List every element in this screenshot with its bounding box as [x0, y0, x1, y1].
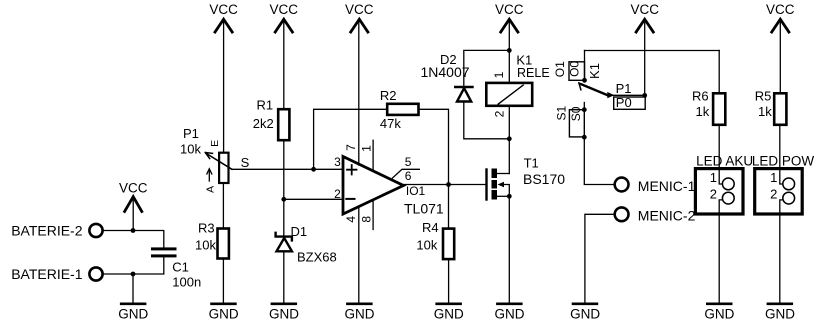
resistor R5	[755, 89, 787, 125]
junction output node	[446, 182, 451, 187]
resistor R3	[195, 221, 229, 259]
wire BATERIE-1 to C1 bottom	[103, 257, 164, 274]
svg-text:S0: S0	[569, 106, 583, 121]
terminal MENIC-1	[615, 178, 696, 194]
relay contact K1	[553, 61, 614, 99]
junction drain node	[507, 136, 512, 141]
svg-text:GND: GND	[209, 307, 239, 322]
wire S to MENIC-1	[584, 137, 614, 184]
connector LED AKU	[695, 154, 753, 215]
junction GND battery node	[131, 272, 136, 277]
power VCC relay column	[495, 2, 524, 32]
svg-text:R1: R1	[257, 98, 274, 113]
svg-text:P0: P0	[616, 95, 632, 110]
svg-text:VCC: VCC	[270, 2, 299, 17]
wire op-amp output to T1 gate	[404, 184, 486, 186]
wire VCC to op-amp pin 7	[358, 20, 360, 165]
junction P/VCC	[642, 93, 647, 98]
wire node to op-amp pin 2	[284, 198, 343, 200]
svg-text:1k: 1k	[696, 104, 710, 119]
terminal BATERIE-1	[11, 266, 102, 282]
ground GND battery	[118, 304, 148, 322]
svg-text:LED AKU: LED AKU	[696, 154, 753, 169]
wire drain node to T1 drain	[508, 139, 510, 174]
wire R2 left leg	[314, 109, 388, 169]
wire LED POW pin 2 to GND	[780, 200, 783, 302]
svg-text:A: A	[204, 186, 216, 193]
ground GND LED AKU	[704, 304, 734, 322]
svg-text:3: 3	[334, 155, 341, 169]
power VCC R5 column	[766, 2, 795, 32]
ground GND LED POW	[765, 304, 795, 322]
wire VCC to relay pin 1	[508, 20, 510, 83]
wire VCC to P1	[223, 20, 225, 153]
wire battery node to GND	[132, 274, 134, 302]
wire BATERIE-2 to C1 top	[103, 231, 164, 248]
relay coil K1	[486, 52, 549, 117]
resistor R4	[416, 220, 454, 259]
resistor R1	[253, 98, 290, 141]
wire P1 to R3	[222, 183, 224, 229]
svg-text:4: 4	[344, 216, 358, 223]
wire D1 to GND	[283, 251, 285, 302]
svg-text:GND: GND	[570, 307, 600, 322]
wire T1 source to GND	[508, 196, 510, 302]
svg-text:2: 2	[334, 187, 341, 201]
svg-text:GND: GND	[765, 307, 795, 322]
wire output node to R4	[448, 185, 450, 229]
svg-text:47k: 47k	[380, 116, 401, 131]
wire R2 right leg to output node	[419, 109, 449, 184]
svg-text:100n: 100n	[172, 275, 201, 290]
svg-text:R2: R2	[380, 88, 397, 103]
wire R6 top leg	[718, 51, 720, 94]
junction VCC/D2 node	[507, 48, 512, 53]
wire op-amp pin 4 to GND	[358, 206, 360, 302]
power VCC battery	[119, 181, 148, 231]
svg-text:1: 1	[359, 145, 373, 152]
svg-text:S1: S1	[554, 106, 568, 121]
connector LED POW	[752, 154, 815, 215]
svg-text:BZX68: BZX68	[297, 250, 337, 265]
svg-text:MENIC-1: MENIC-1	[638, 178, 696, 194]
op-amp minus input mark	[346, 198, 354, 200]
svg-text:GND: GND	[269, 307, 299, 322]
wire D2 top branch	[464, 50, 510, 87]
ground GND T1	[495, 304, 525, 322]
svg-text:2k2: 2k2	[253, 116, 274, 131]
svg-text:BS170: BS170	[523, 171, 565, 187]
terminal MENIC-2	[615, 207, 696, 223]
junction O terminal	[582, 78, 587, 83]
power VCC op-amp column	[345, 2, 374, 32]
svg-text:VCC: VCC	[345, 2, 374, 17]
op-amp IO1	[334, 144, 444, 223]
svg-text:VCC: VCC	[119, 181, 148, 196]
svg-text:GND: GND	[345, 307, 375, 322]
svg-text:VCC: VCC	[630, 2, 659, 17]
svg-text:GND: GND	[704, 307, 734, 322]
op-amp pin 1 stub	[372, 140, 374, 171]
svg-text:8: 8	[359, 216, 373, 223]
junction R2 left to pin3	[311, 167, 316, 172]
junction VCC battery node	[131, 228, 136, 233]
svg-text:VCC: VCC	[766, 2, 795, 17]
svg-text:O1: O1	[553, 61, 567, 77]
wire LED AKU pin 2 to GND	[719, 200, 722, 302]
svg-text:2: 2	[492, 110, 506, 117]
wire P common to VCC	[607, 94, 645, 96]
transistor T1	[487, 155, 566, 199]
svg-text:D1: D1	[291, 224, 308, 239]
svg-text:1N4007: 1N4007	[421, 64, 470, 80]
svg-text:R6: R6	[692, 89, 709, 104]
svg-text:10k: 10k	[195, 238, 216, 253]
wire P1 wiper S to op-amp pin 3	[232, 168, 343, 170]
terminal box P0	[614, 95, 646, 110]
wire R5 to LED POW pin 1	[780, 125, 783, 184]
svg-text:R4: R4	[422, 220, 439, 235]
svg-text:1: 1	[710, 170, 717, 185]
op-amp pin 8 stub	[372, 200, 374, 230]
svg-text:P1: P1	[183, 126, 199, 141]
svg-text:RELE: RELE	[517, 66, 550, 80]
svg-text:P1: P1	[616, 81, 632, 96]
svg-text:VCC: VCC	[495, 2, 524, 17]
wire relay contact O to R6 (top rail)	[585, 50, 720, 52]
wire relay pin 2 to drain node	[508, 106, 510, 139]
svg-text:10k: 10k	[416, 238, 437, 253]
wire VCC to R1	[283, 20, 285, 110]
wire VCC to R5	[779, 20, 781, 94]
svg-text:LED POW: LED POW	[752, 154, 815, 169]
op-amp pin 5 stub	[393, 169, 420, 178]
svg-text:TL071: TL071	[404, 201, 444, 217]
power VCC contact column	[630, 2, 659, 32]
wire R6 to LED AKU pin 1	[719, 125, 722, 184]
svg-text:1: 1	[492, 71, 506, 78]
wire MENIC-2 to GND	[585, 214, 615, 302]
svg-text:R3: R3	[198, 221, 215, 236]
svg-text:IO1: IO1	[406, 184, 426, 198]
P1 direction arrow	[208, 170, 210, 182]
relay contact S terminal	[554, 103, 586, 140]
svg-text:MENIC-2: MENIC-2	[638, 208, 696, 224]
svg-text:O0: O0	[568, 61, 582, 77]
svg-text:GND: GND	[434, 307, 464, 322]
zener diode D1	[276, 224, 337, 265]
wire R4 to GND	[448, 259, 450, 302]
svg-text:GND: GND	[495, 307, 525, 322]
svg-text:R5: R5	[755, 89, 772, 104]
svg-text:6: 6	[405, 169, 412, 183]
svg-text:BATERIE-2: BATERIE-2	[11, 223, 83, 239]
ground GND P1 column	[209, 304, 239, 322]
wire R1 to D1 (crosses pin3 wire)	[283, 140, 285, 236]
ground GND D1 column	[269, 304, 299, 322]
P1 wiper arrow	[206, 153, 232, 169]
junction T1 source/bulk	[507, 194, 512, 199]
wire D2 bottom branch	[464, 102, 510, 139]
svg-text:7: 7	[344, 144, 358, 151]
svg-text:2: 2	[770, 186, 777, 201]
resistor R2	[380, 88, 419, 131]
svg-text:E: E	[209, 140, 221, 147]
terminal BATERIE-2	[11, 223, 102, 239]
wire R3 to GND	[222, 259, 224, 303]
junction R1/D1 to pin 2	[281, 197, 286, 202]
svg-text:BATERIE-1: BATERIE-1	[11, 266, 83, 282]
wire O terminal leg	[584, 51, 586, 81]
svg-text:K1: K1	[587, 63, 602, 79]
resistor R6	[692, 89, 725, 125]
ground GND op-amp	[345, 304, 375, 322]
svg-text:5: 5	[405, 155, 412, 169]
wire VCC to P common	[644, 20, 646, 96]
op-amp plus input mark	[347, 165, 357, 175]
svg-text:S: S	[241, 155, 250, 170]
svg-text:VCC: VCC	[209, 2, 238, 17]
capacitor C1	[151, 247, 201, 289]
svg-text:C1: C1	[172, 259, 189, 274]
power VCC P1 column	[209, 2, 238, 32]
svg-text:T1: T1	[524, 155, 539, 170]
svg-text:1: 1	[770, 170, 777, 185]
ground GND R4	[434, 304, 464, 322]
power VCC R1 column	[270, 2, 299, 32]
svg-text:GND: GND	[118, 307, 148, 322]
svg-text:2: 2	[710, 186, 717, 201]
svg-text:1k: 1k	[758, 104, 772, 119]
ground GND MENIC	[570, 304, 600, 322]
potentiometer P1	[180, 126, 250, 193]
diode D2	[421, 52, 473, 102]
svg-text:10k: 10k	[180, 142, 201, 157]
